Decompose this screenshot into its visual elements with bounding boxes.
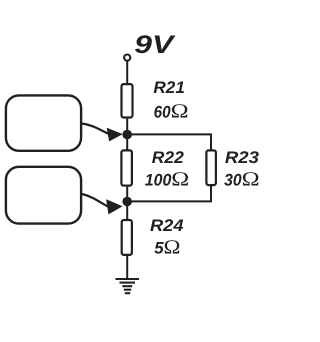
callout box 2 — [6, 167, 81, 224]
svg-text:9V: 9V — [134, 31, 175, 59]
wire R21 to node A — [126, 119, 128, 150]
node B junction dot — [122, 197, 132, 207]
ground — [116, 279, 140, 293]
callout box 1 — [6, 95, 81, 150]
resistor R23 — [206, 150, 216, 185]
resistor R22 — [121, 150, 131, 185]
svg-text:R22: R22 — [152, 148, 185, 167]
resistor R24 — [122, 220, 132, 255]
svg-text:R23: R23 — [225, 148, 260, 167]
supply terminal — [124, 55, 130, 61]
wire R24 to ground — [126, 256, 128, 279]
svg-text:R24: R24 — [150, 216, 184, 235]
svg-text:60Ω: 60Ω — [154, 101, 189, 123]
svg-text:100Ω: 100Ω — [145, 169, 190, 191]
arrow to node A — [82, 124, 123, 142]
wire R22 to R24 through node B — [126, 187, 128, 220]
arrow to node B — [82, 194, 123, 214]
node A junction dot — [122, 130, 132, 140]
svg-text:R21: R21 — [153, 78, 185, 97]
wire terminal to R21 — [126, 62, 128, 85]
resistor R21 — [122, 84, 133, 117]
wire R23 to node B — [127, 186, 211, 201]
wire node A to R23 branch — [127, 134, 211, 150]
svg-text:30Ω: 30Ω — [224, 169, 260, 191]
svg-text:5Ω: 5Ω — [154, 237, 180, 259]
